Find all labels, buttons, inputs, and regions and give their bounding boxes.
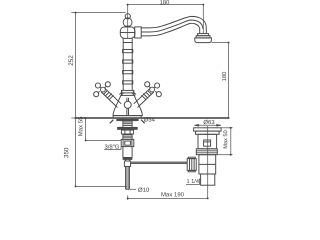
- right handle hub: [150, 87, 155, 92]
- spout middle contour: [141, 20, 203, 32]
- spout tee body: [120, 27, 135, 39]
- body dome: [113, 95, 143, 115]
- Max50 extension bottom: [217, 154, 231, 156]
- dark neck band: [125, 26, 131, 28]
- medallion pin: [127, 98, 129, 116]
- dim 252/350 vertical line: [75, 13, 77, 187]
- rod junction block: [124, 161, 130, 166]
- collar step line: [122, 92, 134, 94]
- left handle balls: [105, 82, 110, 87]
- column ring 2: [123, 60, 133, 63]
- Max50 ticks: [229, 128, 233, 155]
- text 350: [64, 148, 68, 158]
- tick at deck on 252 line: [71, 13, 78, 118]
- text 3/8"G: [105, 144, 119, 148]
- dimension junction dots: [127, 4, 129, 6]
- finial big ball: [123, 18, 132, 27]
- left handle hub: [101, 87, 106, 92]
- left handle stem: [101, 88, 121, 107]
- Max190 left tick: [127, 195, 129, 199]
- text O54: [144, 117, 155, 121]
- tailpiece upper: [199, 155, 216, 174]
- deck line: [76, 117, 229, 119]
- text 1 1/4": [187, 179, 201, 183]
- 1 1/4 leader: [186, 179, 199, 185]
- column ring 3: [123, 71, 133, 74]
- clamp ribs: [187, 159, 196, 171]
- pop-up rod: [131, 162, 187, 163]
- clamp small cap bottom: [188, 170, 195, 171]
- O10 leader: [130, 188, 136, 190]
- outlet ring 2: [196, 36, 210, 38]
- Max55 bottom extension to shank: [86, 140, 123, 142]
- O10 stud: [126, 159, 130, 189]
- tailpiece mid line: [199, 163, 216, 165]
- base plinth: [113, 115, 143, 117]
- extension line spout outlet to right dim: [212, 42, 229, 44]
- dim 180 top horizontal line: [128, 4, 204, 6]
- right handle balls: [145, 82, 150, 87]
- spout outlet tube: [200, 29, 207, 34]
- tee contour line: [120, 32, 135, 34]
- drain ring stack: [196, 149, 217, 155]
- threaded shank sides: [123, 118, 132, 158]
- top-left extension line to finial: [76, 12, 126, 14]
- 3/8G leader underline: [104, 147, 121, 150]
- rod guide block: [121, 139, 134, 146]
- outlet rim ring: [198, 34, 209, 36]
- guide inner: [125, 141, 131, 145]
- drain O63 dim line: [194, 124, 221, 126]
- collar corner hatches: [119, 92, 136, 97]
- Max190 dim line: [128, 197, 208, 199]
- column joint line: [123, 42, 132, 44]
- drain centerline lower: [207, 126, 209, 198]
- under-deck washer: [116, 119, 138, 121]
- base plate: [113, 116, 141, 118]
- O54 tick right: [141, 120, 145, 124]
- spout junction block: [135, 27, 142, 38]
- window inner line: [204, 141, 211, 143]
- lift rod inner lines: [127, 167, 128, 190]
- text 180 top: [160, 0, 169, 4]
- right handle stem: [134, 88, 154, 107]
- text Max 50: [223, 131, 227, 149]
- text O10: [138, 188, 149, 192]
- faucet centerline top: [127, 5, 129, 38]
- text Max 190: [161, 192, 183, 196]
- clamp small cap top: [188, 157, 195, 158]
- O54 tick left: [110, 120, 114, 124]
- finial small ball: [125, 14, 130, 19]
- washer dark bar: [118, 127, 138, 129]
- overflow window: [204, 140, 211, 146]
- riser column: [123, 38, 132, 90]
- O63 arrow left: [194, 124, 199, 126]
- drain flange top plate: [194, 128, 222, 131]
- text O63: [204, 120, 215, 124]
- text 252: [69, 56, 73, 66]
- locknut: [121, 130, 133, 134]
- text Max 55: [78, 117, 82, 136]
- tailpiece lower: [201, 174, 215, 185]
- text 180 right: [222, 72, 226, 81]
- column ring 4: [123, 81, 133, 84]
- drain upper body: [198, 134, 217, 149]
- spout top edge: [141, 16, 206, 28]
- drain flange lower plate: [196, 131, 220, 134]
- tick right / outlet centerline extension: [202, 5, 204, 34]
- shank thread hatching: [123, 122, 132, 138]
- outlet bowl: [195, 38, 212, 43]
- Max50 dim line: [230, 128, 232, 155]
- 350 bottom extension line: [76, 185, 128, 187]
- column ring 1: [123, 50, 133, 53]
- shank bottom cap: [123, 158, 132, 160]
- Max50 extension top: [221, 127, 231, 129]
- spout bottom edge: [141, 23, 200, 36]
- right 180 vertical dim line: [228, 43, 230, 119]
- column collar lower: [122, 90, 134, 95]
- body medallion: [124, 101, 131, 108]
- O63 arrow right: [216, 124, 221, 126]
- dim Max55 vertical line: [85, 118, 87, 141]
